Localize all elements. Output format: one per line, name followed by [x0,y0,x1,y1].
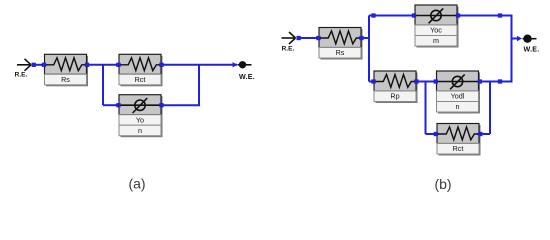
node: R.E. output junction (a) [32,63,36,67]
svg-text:Rp: Rp [390,92,399,101]
caption (a) [128,176,145,192]
wire Yodl to right vertical (b) [480,81,513,83]
wire mid-left junction vertical to Rct (b) [425,82,427,135]
node: Rct left pin (b) [434,132,438,136]
wire R.E. to Rs (b) [299,37,319,39]
node: top-right joint (b) [498,13,502,17]
svg-text:Rs: Rs [336,48,345,57]
wire arrowhead into W.E. (b) [517,36,522,41]
node: Rp right pin (b) [414,79,418,83]
node: Rp left pin (b) [371,79,375,83]
svg-text:Yoc: Yoc [430,26,442,35]
svg-text:R.E.: R.E. [15,71,28,78]
node: Yoc right pin (b) [456,13,460,17]
wire junction down-left of parallel pair (a) [102,65,104,105]
wire Rs to left junction (b) [362,37,371,39]
node: Rs left pin (b) [316,36,320,40]
svg-text:Yo: Yo [136,115,144,124]
node: R.E. output junction (b) [296,36,300,40]
svg-text:R.E.: R.E. [282,45,295,52]
wire left junction vertical (b) [368,16,370,82]
resistor Rp (b) [371,71,419,103]
wire to Yo left pin (a) [103,104,119,106]
wire Yo right pin to right junction (a) [162,104,201,106]
wire R.E. to Rs (a) [34,64,45,66]
node: Rct right pin (a) [159,63,163,67]
wire left junction to Rp (b) [369,81,374,83]
node: Rct right pin (b) [478,132,482,136]
svg-text:n: n [138,126,142,135]
terminal R.E. (circuit b) [282,32,296,52]
terminal W.E. (circuit a) [238,61,255,81]
svg-text:Rct: Rct [453,144,464,153]
node: Rs left pin (a) [42,63,46,67]
svg-text:n: n [456,102,460,111]
wire Rct to W.E. (a) [162,64,238,66]
node: Yodl left pin (b) [434,79,438,83]
resistor Rct (a) [116,54,164,86]
node: Yo right pin (a) [159,103,163,107]
wire right junction vertical (a) [198,65,200,105]
terminal R.E. (circuit a) [15,59,31,79]
resistor Rct (b) [434,124,482,156]
svg-text:(a): (a) [128,176,145,192]
wire to Yoc branch (b) [369,15,415,17]
node: Yodl right pin (b) [478,79,482,83]
wire Rs to Rct (a) [87,64,119,66]
wire Rct right pin to junction (b) [480,133,490,135]
node: Rs right pin (b) [359,36,363,40]
CPE Yodl (b) [434,71,482,114]
wire Yoc to right vertical (b) [458,15,513,17]
terminal W.E. (circuit b) [523,35,540,54]
wire to Rct left pin (b) [426,133,437,135]
caption (b) [434,176,451,192]
wire Rp to Yodl (b) [417,81,437,83]
wire arrowhead into W.E. (a) [233,62,238,67]
node: mid-right joint (b) [498,79,502,83]
svg-text:(b): (b) [434,176,451,192]
node: Rs right pin (a) [85,63,89,67]
wire stub to W.E. (b) [512,38,519,40]
svg-text:Yodl: Yodl [451,92,465,101]
node: Yoc left pin (b) [412,13,416,17]
resistor Rs (a) [42,54,90,86]
wire mid-right junction vertical to Rct (b) [489,82,491,135]
CPE Yoc (b) [412,5,460,48]
svg-text:Rs: Rs [61,75,70,84]
node: Rct left pin (a) [116,63,120,67]
svg-text:Rct: Rct [135,75,146,84]
node: top-left corner joint (b) [371,13,375,17]
resistor Rs (b) [316,28,364,60]
CPE Yo (a) [116,95,164,138]
svg-text:W.E.: W.E. [239,73,255,81]
svg-text:W.E.: W.E. [524,46,540,54]
wire right vertical (b) [511,16,513,82]
svg-text:m: m [433,36,439,45]
node: Yo left pin (a) [116,103,120,107]
